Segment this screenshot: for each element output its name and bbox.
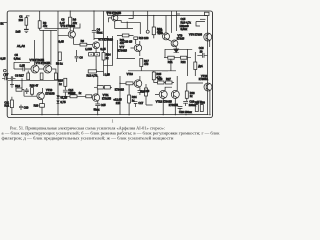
resistor R16b	[16, 88, 22, 91]
svg-text:50мк: 50мк	[94, 107, 101, 111]
svg-text:VT10: VT10	[46, 88, 53, 92]
resistor R24	[128, 95, 131, 103]
svg-text:А1,А2: А1,А2	[17, 44, 25, 48]
svg-text:0,25: 0,25	[0, 57, 6, 61]
capacitor C2 bar	[24, 28, 29, 30]
wire VT9 emitter	[175, 46, 177, 49]
capacitor C3	[69, 17, 72, 25]
wire VT6 emitter lead	[209, 40, 211, 47]
wire R23 leads	[146, 84, 153, 105]
transistor VT9	[171, 40, 178, 47]
wire VT3 emitter lead	[36, 71, 38, 74]
transistor VT7m	[134, 44, 141, 51]
wire inner right vertical rail	[207, 16, 209, 115]
capacitor C14	[63, 86, 68, 96]
resistor R25	[152, 72, 155, 80]
capacitor C4	[92, 11, 96, 40]
wire VT5 emitter net	[116, 21, 140, 23]
diode VD2	[95, 53, 100, 56]
capacitor C5	[14, 67, 31, 71]
wire R21 R22 row	[164, 57, 191, 59]
wire VT12m collector	[139, 76, 141, 80]
ground bus wire bottom	[11, 114, 209, 116]
wire column x112.4	[104, 36, 113, 66]
svg-text:R22: R22	[181, 60, 186, 64]
diode VD3	[134, 37, 138, 40]
svg-text:47к: 47к	[73, 21, 78, 25]
wire VD column	[95, 49, 97, 70]
svg-text:С6: С6	[79, 56, 83, 60]
wire VT14 collector lead	[176, 76, 178, 91]
svg-text:100мкФ: 100мкФ	[180, 24, 189, 28]
svg-text:1,0Б: 1,0Б	[20, 64, 26, 68]
svg-text:12Б: 12Б	[116, 101, 121, 105]
svg-text:470: 470	[144, 62, 149, 66]
svg-text:VT10: VT10	[127, 72, 134, 76]
svg-text:фильтров; д — блок предварител: фильтров; д — блок предварительных усили…	[2, 135, 175, 140]
wire VT9 emitter to R21	[164, 49, 166, 57]
resistor R14	[102, 53, 105, 61]
resistor R18	[31, 88, 34, 95]
capacitor C20	[178, 107, 183, 111]
svg-text:R13 100: R13 100	[139, 36, 149, 40]
resistor R2	[38, 21, 41, 28]
svg-text:С20 100мк: С20 100мк	[179, 110, 193, 114]
wire R12 right lead	[96, 70, 103, 72]
svg-text:0,47: 0,47	[60, 21, 66, 25]
resistor R10	[152, 27, 155, 35]
svg-text:R16: R16	[15, 84, 20, 88]
transistor VT3	[31, 65, 39, 73]
wire VT11 base rail	[58, 95, 65, 97]
resistor R19c	[10, 100, 13, 108]
capacitor C15e	[95, 101, 100, 115]
svg-text:1,8Б: 1,8Б	[105, 73, 111, 77]
ground input	[10, 80, 14, 87]
wire emitter rail	[165, 49, 192, 76]
resistor R11	[122, 34, 129, 37]
wire VT5 emitter down	[115, 21, 123, 28]
wire left bus x58	[57, 11, 59, 115]
svg-text:R9: R9	[81, 39, 85, 43]
resistor R7	[27, 73, 30, 80]
svg-text:R19: R19	[70, 91, 75, 95]
resistor R15	[64, 78, 67, 86]
wire column x133	[129, 11, 134, 19]
svg-text:1,2Б: 1,2Б	[158, 31, 164, 35]
transistor VT6	[204, 33, 212, 41]
wire VT2 collector lead	[74, 24, 80, 32]
wire R7 lead	[27, 71, 29, 81]
wire VD5 leads	[41, 99, 43, 114]
svg-text:R16 4,7к: R16 4,7к	[181, 20, 192, 24]
svg-text:С8 R17: С8 R17	[15, 73, 24, 77]
svg-text:КТ315: КТ315	[177, 37, 185, 41]
svg-text:VT6 КТ805: VT6 КТ805	[189, 32, 202, 36]
svg-text:R23: R23	[140, 89, 145, 93]
resistor R8	[40, 73, 43, 80]
transistor VT14	[171, 90, 179, 98]
wire column x117.4	[117, 40, 135, 59]
transistor VT12	[159, 90, 167, 98]
transistor VT10	[37, 92, 44, 99]
resistor R9b base	[80, 43, 87, 46]
capacitor C8 input	[9, 76, 15, 80]
wire R9 lead	[52, 69, 56, 80]
wire above VT11	[94, 76, 112, 94]
svg-text:VT4 КТ315Б: VT4 КТ315Б	[36, 61, 51, 65]
resistor R26	[158, 81, 165, 84]
wire VT10 base	[22, 78, 37, 96]
wire R2 bottom lead	[39, 28, 41, 30]
wire C3 bottom lead	[69, 26, 71, 31]
svg-text:КТ361Б: КТ361Б	[118, 49, 127, 53]
resistor R1	[25, 18, 28, 26]
capacitor C19	[183, 98, 188, 106]
wire emitter bus	[8, 79, 58, 81]
svg-text:R8 1к: R8 1к	[56, 61, 63, 65]
resistor R26h	[104, 86, 110, 89]
svg-text:С7: С7	[5, 73, 9, 77]
node dot	[175, 49, 177, 51]
svg-text:R20: R20	[34, 104, 39, 108]
wire VT12 collector lead	[165, 87, 172, 91]
svg-text:220: 220	[19, 18, 24, 22]
resistor R8a	[58, 52, 61, 61]
wire VT5 base lead	[109, 18, 112, 22]
node dot	[127, 22, 128, 23]
svg-text:VT11: VT11	[103, 93, 110, 97]
ground	[25, 31, 29, 32]
capacitor C17	[134, 102, 138, 107]
wire column x171.5	[171, 11, 173, 33]
wire R10 bottom lead	[153, 35, 155, 39]
wire VT4 base feed	[42, 30, 44, 65]
svg-text:Др1: Др1	[198, 64, 203, 68]
wire R17 bottom lead	[128, 67, 168, 71]
svg-text:С10: С10	[24, 105, 29, 109]
relay box K1	[205, 12, 210, 15]
transistor VT2	[68, 31, 75, 38]
wire base feed VT2	[40, 28, 69, 30]
resistor R22b	[126, 82, 133, 85]
wire R29 lead	[197, 101, 202, 105]
svg-text:R26: R26	[158, 77, 163, 81]
capacitor C10	[19, 105, 23, 110]
resistor R23h	[86, 95, 92, 98]
svg-text:VT7 КТ361Б: VT7 КТ361Б	[98, 37, 113, 41]
svg-text:VT13: VT13	[201, 74, 208, 78]
wire R22b lead	[120, 82, 134, 84]
switch SA1 contact	[196, 22, 205, 27]
wire VT8-VT9 link	[168, 39, 171, 41]
svg-text:1: 1	[112, 119, 114, 124]
resistor R17	[140, 59, 143, 67]
node dot base	[119, 83, 120, 84]
wire base row	[65, 95, 86, 97]
wire R19c leads	[11, 97, 13, 115]
wire VT14 emitter lead	[174, 98, 176, 114]
capacitor C6	[75, 50, 79, 62]
schematic frame	[7, 11, 212, 118]
resistor R22	[181, 56, 187, 59]
wire VT5m base	[87, 44, 93, 46]
node dots on ground bus	[41, 10, 210, 115]
wire R26 row	[154, 80, 174, 83]
wire column x176.5	[177, 11, 181, 31]
wire R11 column feed	[139, 22, 141, 34]
svg-text:+12,6Б: +12,6Б	[113, 97, 122, 101]
diode VD7	[57, 101, 60, 104]
wire VT13 emitter lead	[209, 90, 211, 114]
diode VD6	[57, 95, 60, 98]
wire top supply rail	[108, 11, 208, 16]
svg-text:VT12 КТ361Б: VT12 КТ361Б	[156, 100, 172, 104]
wire R10 top lead	[153, 16, 155, 28]
diode VD1	[89, 53, 94, 56]
resistor R28	[185, 91, 188, 98]
wire R14 leads	[103, 39, 105, 77]
wire R24 leads	[128, 85, 130, 115]
wire VT5 collector net	[116, 13, 118, 15]
wire R25 top lead	[153, 71, 155, 72]
svg-text:КТ315В: КТ315В	[45, 92, 54, 96]
svg-text:Вх: Вх	[0, 22, 4, 26]
input terminal XS1	[4, 69, 7, 72]
svg-text:50мк: 50мк	[97, 31, 104, 35]
resistor R19	[70, 95, 77, 98]
svg-text:С17: С17	[138, 101, 143, 105]
wire VT4 collector feed	[50, 30, 52, 65]
wire R11 leads	[117, 34, 134, 36]
svg-text:С10 1Б: С10 1Б	[124, 40, 133, 44]
wire VT12 emitter lead	[162, 98, 164, 114]
svg-text:VT5 КТ315Б: VT5 КТ315Б	[107, 11, 122, 15]
wire column x107.6	[107, 36, 109, 76]
resistor R25h	[97, 86, 103, 89]
svg-text:С15: С15	[101, 103, 106, 107]
svg-text:1,12Б: 1,12Б	[85, 47, 92, 51]
wire pin column	[147, 11, 149, 30]
wire VT2 emitter lead	[74, 37, 80, 44]
transistor VT8	[163, 33, 170, 40]
diode VD4	[174, 49, 180, 53]
svg-text:R21: R21	[4, 104, 9, 108]
svg-text:R12 4,7В: R12 4,7В	[87, 74, 98, 78]
svg-text:КТ315Б: КТ315Б	[102, 97, 111, 101]
wire C3 top lead	[69, 11, 71, 17]
wire R22 down	[162, 59, 176, 71]
svg-text:0,5мк: 0,5мк	[181, 27, 188, 31]
svg-text:0,5мк: 0,5мк	[14, 56, 21, 60]
wire column x103.5	[94, 11, 109, 39]
svg-text:1мВ: 1мВ	[16, 30, 21, 34]
wire VT12m emitter	[139, 87, 141, 90]
svg-text:0,4Б: 0,4Б	[59, 40, 65, 44]
wire input column	[14, 62, 30, 69]
resistor R12	[88, 70, 96, 73]
transistor VT12m	[134, 80, 142, 88]
wire VT2 base	[58, 33, 68, 36]
capacitor C16	[197, 53, 207, 58]
svg-text:VT7: VT7	[120, 45, 125, 49]
wire VT3-VT4 link	[39, 68, 44, 70]
svg-text:С15: С15	[181, 17, 186, 21]
diode VD5	[40, 104, 45, 108]
wire column x120	[119, 76, 121, 115]
wire R8 lead	[41, 79, 43, 82]
wire branch x127	[123, 22, 134, 28]
resistor R9	[55, 73, 58, 80]
svg-text:КТ805А: КТ805А	[199, 77, 208, 81]
svg-text:R21: R21	[168, 60, 173, 64]
resistor R21	[168, 56, 174, 59]
transistor VT13	[204, 83, 212, 91]
svg-text:1к: 1к	[79, 91, 82, 95]
wire VT3 collector feed	[34, 40, 36, 65]
svg-text:R27: R27	[166, 77, 171, 81]
svg-text:VT2 КТ315Б: VT2 КТ315Б	[61, 24, 76, 28]
svg-text:VT3 КТ315Б: VT3 КТ315Б	[30, 58, 45, 62]
capacitor C7 input	[2, 76, 9, 80]
wire R28 top lead	[187, 83, 203, 91]
wire L1 column	[194, 52, 196, 76]
inductor L1	[194, 62, 197, 70]
transistor VT5 top	[112, 15, 118, 21]
capacitor C9	[25, 88, 29, 94]
wire R2 top lead	[39, 11, 41, 21]
resistor R29	[195, 105, 198, 112]
svg-text:КТ315Б: КТ315Б	[169, 103, 178, 107]
resistor R23	[145, 88, 148, 96]
svg-text:47к: 47к	[43, 24, 48, 28]
wire R1 top lead	[26, 16, 29, 18]
resistor R30	[200, 105, 203, 112]
wire stub	[200, 18, 206, 20]
wire VT8 collector rail	[165, 16, 167, 34]
svg-text:R18 47: R18 47	[30, 84, 39, 88]
transistor VT5m	[93, 42, 100, 49]
input terminal XS2	[4, 74, 7, 77]
resistor R27	[166, 81, 173, 84]
wire VT12 base lead	[155, 93, 159, 95]
svg-text:КТ361Б: КТ361Б	[115, 88, 124, 92]
svg-text:0,7Б: 0,7Б	[60, 100, 66, 104]
capacitor C16e	[138, 91, 143, 96]
wire R1 bottom lead	[25, 25, 27, 29]
wire input stub	[2, 22, 8, 24]
transistor VT11	[92, 94, 99, 101]
transistor VT4	[44, 65, 52, 73]
wire VT10 collector	[32, 88, 42, 96]
wire VT7m collector	[139, 41, 141, 56]
pin socket X1	[146, 30, 149, 33]
wire VT7m base lead	[131, 39, 136, 48]
